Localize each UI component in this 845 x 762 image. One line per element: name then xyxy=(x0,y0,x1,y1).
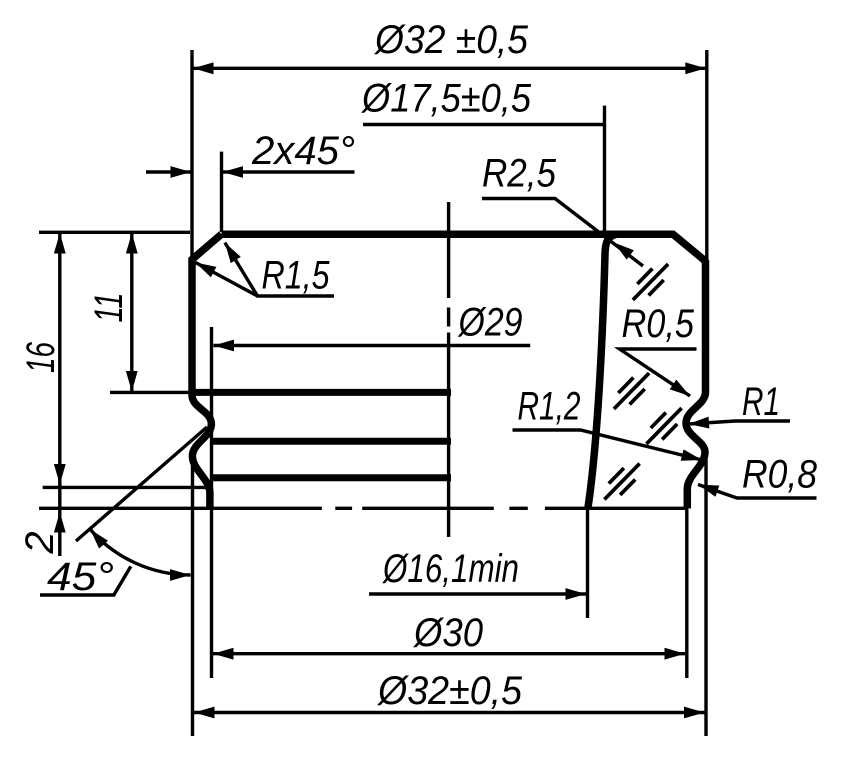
svg-text:R1,5: R1,5 xyxy=(262,254,331,298)
svg-text:R0,8: R0,8 xyxy=(742,453,818,497)
svg-text:R1: R1 xyxy=(742,380,780,424)
svg-text:Ø32±0,5: Ø32±0,5 xyxy=(376,669,523,713)
svg-text:45°: 45° xyxy=(47,555,114,599)
svg-text:Ø29: Ø29 xyxy=(457,301,523,345)
svg-text:2x45°: 2x45° xyxy=(251,129,355,173)
svg-text:Ø32 ±0,5: Ø32 ±0,5 xyxy=(373,18,529,62)
svg-text:16: 16 xyxy=(19,341,63,373)
svg-text:R2,5: R2,5 xyxy=(482,152,557,196)
svg-text:11: 11 xyxy=(87,293,131,323)
svg-text:R0,5: R0,5 xyxy=(622,302,695,346)
svg-text:Ø16,1min: Ø16,1min xyxy=(381,547,519,591)
svg-text:Ø30: Ø30 xyxy=(412,611,483,655)
svg-text:R1,2: R1,2 xyxy=(518,385,581,429)
svg-text:2: 2 xyxy=(18,531,62,554)
svg-text:Ø17,5±0,5: Ø17,5±0,5 xyxy=(360,77,531,121)
